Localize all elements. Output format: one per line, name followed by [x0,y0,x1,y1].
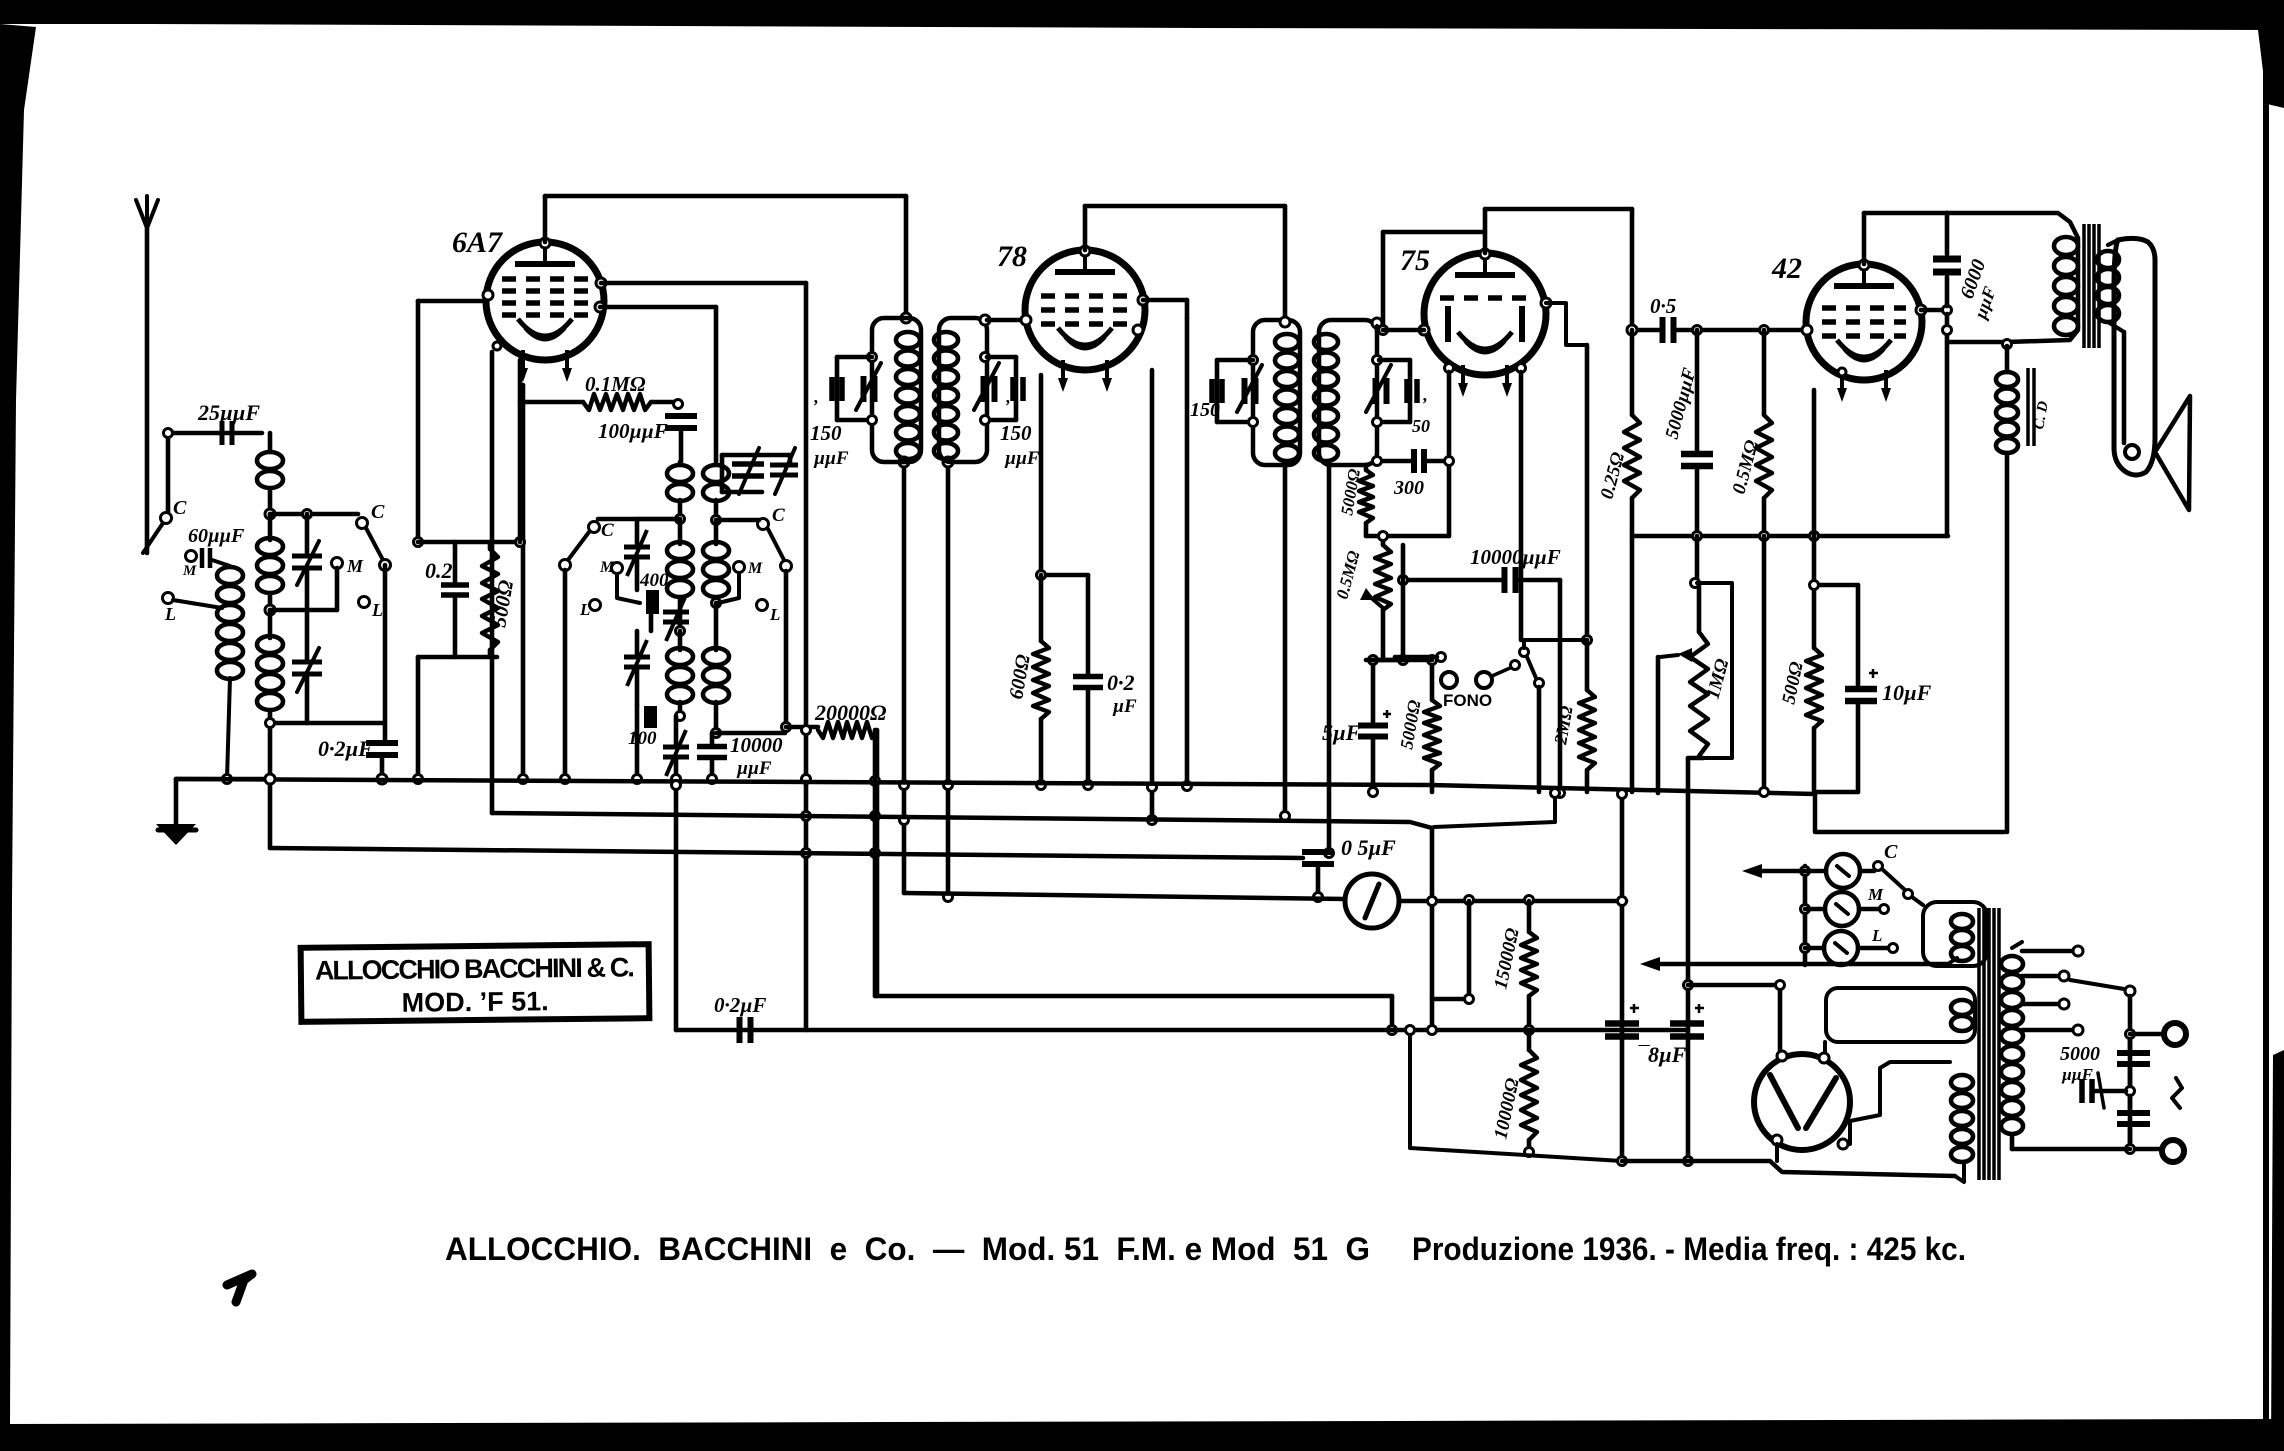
svg-text:60µµF: 60µµF [188,525,245,547]
IF1 secondary frame [939,318,987,462]
capacitor line filter a [2117,1053,2150,1064]
power transformer core [1979,908,1999,1180]
svg-text:C: C [601,520,614,541]
wire 78 plate right [1143,298,1187,303]
wire varcap top [305,514,310,556]
wire x1632 below [1630,536,1635,792]
coil L1 bottom [257,636,283,653]
wire M row [270,608,337,613]
switch fan right C [758,519,769,530]
svg-text:10000: 10000 [730,733,783,757]
capacitor 25uuF [222,421,232,445]
wire 78 top to IF2 [1083,206,1088,250]
wire x1417 drop to rect [1410,1030,1622,1161]
page number 7 [227,1274,252,1302]
IF2 primary coil [1275,334,1299,350]
svg-text:FONO: FONO [1443,691,1492,710]
potentiometer 1M [1697,583,1732,758]
pilot lamp L [1824,931,1858,965]
capacitor 300 [1414,449,1424,473]
wire 42 top [1862,213,1867,264]
wire fan left pole [563,570,568,779]
svg-text:42: 42 [1771,252,1802,285]
antenna [136,200,147,228]
wire drop x948 IF1 sec [946,466,951,897]
wire block top [418,540,520,545]
wire drop x806 [804,726,809,1030]
svg-text:0.2: 0.2 [425,558,453,583]
contact L2 [163,593,174,604]
switch contact M [332,558,343,569]
resistor 10000ohm [1521,1050,1537,1140]
switch contact L [359,597,370,608]
wire padder [305,610,310,662]
resistor 5000ohm bias [1424,700,1440,770]
antenna switch contact C [161,513,172,524]
wire drop x904 IF1 pri [902,466,907,893]
bus wire B4b [1399,899,1626,904]
wire 78 g drop x1152 [1150,370,1155,820]
terminal top [2130,1032,2162,1037]
wire 75 top left [1383,230,1485,235]
tube 78 [1025,250,1145,370]
wire bottom long [1622,1161,1955,1176]
coil osc B mid [703,542,729,559]
potentiometer 0.5M [1375,545,1391,610]
svg-text:100: 100 [628,728,657,749]
junction [901,313,911,323]
junction IF1 sec top [980,315,990,325]
svg-text:Produzione 1936. - Media freq.: Produzione 1936. - Media freq. : 425 kc. [1412,1231,1966,1267]
junction [303,510,312,519]
svg-text:20000Ω: 20000Ω [814,700,887,725]
wire switch pole down [383,565,388,743]
output transformer core [2084,224,2099,348]
switch arm mains [1882,869,1905,890]
resistor 500ohm 42 [1806,648,1822,728]
svg-text:0·2µF: 0·2µF [714,993,766,1017]
lamp bus vertical [1803,866,1808,965]
svg-text:75: 75 [1400,244,1430,277]
junction IF2 sec top [1372,318,1382,328]
capacitor 10000uuF osc [697,747,727,758]
svg-text:’: ’ [1004,396,1010,416]
terminal bottom [2130,1147,2160,1152]
svg-text:C: C [173,497,187,519]
switch arm [366,528,383,560]
IF1 sec trimmer [981,353,990,362]
svg-text:150: 150 [1000,421,1032,445]
svg-text:M: M [346,556,364,576]
coil osc A top [678,462,683,465]
svg-text:’: ’ [1421,394,1427,414]
resistor 20000ohm [818,722,877,738]
capacitor 0.5uF [1302,852,1334,864]
tube 75 [1424,253,1546,375]
wire fan right pole [784,571,789,727]
svg-text:ALLOCCHIO. BACCHINI e Co.: ALLOCCHIO. BACCHINI e Co. — Mod. 51 F.M.… [445,1231,1370,1267]
wire x1697 pot feed [1695,536,1700,583]
wire tap down [2128,996,2133,1149]
svg-text:µµF: µµF [2061,1065,2094,1084]
scan border right top corner [2254,0,2284,108]
wire 78 plate drop x1187 [1185,318,1190,786]
resistor 15000ohm [1521,932,1537,996]
wire 42 plate [1916,305,1926,315]
secondary taps [2022,949,2072,954]
meter lamp [1345,874,1399,928]
svg-text:L: L [371,600,383,620]
coil L1 mid [257,538,283,555]
junction top [1859,260,1869,270]
ground bus [176,777,270,782]
svg-text:300: 300 [1393,477,1424,499]
junction IF2 pri top [1280,317,1290,327]
output transformer loop [1947,213,2078,342]
svg-text:µµF: µµF [1004,448,1040,469]
junction [265,509,275,519]
svg-text:150: 150 [1190,399,1220,421]
svg-text:L: L [1871,926,1882,945]
coil antenna primary [212,560,230,566]
maker label box [301,944,650,1022]
wire 6A7 grid1 row [596,278,606,288]
wire varcap bottom [305,568,310,610]
capacitor 100 blob [644,706,657,728]
svg-text:ALLOCCHIO BACCHINI & C.: ALLOCCHIO BACCHINI & C. [315,952,635,985]
svg-text:µµF: µµF [736,758,772,779]
trimmer 5000uuF mains [2095,1089,2126,1094]
capacitor line filter b [2117,1113,2150,1124]
coil osc A bottom [667,648,693,665]
svg-text:50: 50 [1412,416,1430,436]
svg-text:78: 78 [997,240,1027,273]
coil L1 antenna tuning top [268,433,273,452]
svg-text:10µF: 10µF [1882,680,1932,705]
switch fan left L [590,600,601,611]
rectifier tube [1823,1042,1827,1056]
wire 6A7 top to IF1 [543,196,548,242]
trimmer padder osc [663,747,689,757]
trimmer 400 col [624,547,650,557]
wire 75 top right [1483,209,1488,253]
bus y536 [1632,534,1948,539]
resistor 600ohm [1033,641,1049,719]
svg-text:µF: µF [1112,696,1137,717]
wire 75 plate chain [1541,298,1551,308]
capacitor 5uF [1358,726,1388,737]
resistor 2M [1579,690,1595,770]
IF2 secondary frame [1319,320,1377,465]
wire 42 cathode [1812,390,1817,536]
svg-text:0.1MΩ: 0.1MΩ [585,372,646,396]
transformer primary bottom [1951,1075,1973,1090]
wire 42 grid [1802,325,1812,335]
svg-text:L: L [164,604,176,624]
svg-text:10000µµF: 10000µµF [1470,545,1561,569]
bus wire B2 [492,813,1432,828]
capacitor 8uF a [1605,1024,1639,1037]
wire 25uuF feed [166,433,171,512]
wire IF2 sec bottom drop [1327,465,1332,853]
junction top [1480,249,1490,259]
speaker cone [2155,396,2190,510]
scan border top [0,0,2284,30]
capacitor 5000uuF [1681,454,1713,466]
svg-text:0 5µF: 0 5µF [1341,835,1396,860]
svg-text:M: M [182,563,197,579]
svg-text:L: L [769,605,780,624]
IF2 secondary coil [1314,334,1338,350]
wire rect bottom pins [1838,1139,1848,1149]
IF2 primary frame [1253,320,1300,465]
capacitor 60uuF [186,551,197,562]
svg-text:C: C [371,501,385,523]
scan border bottom [0,1419,2284,1451]
bus wire B1 end [1815,794,2004,832]
wire 75 grid left [1419,325,1429,335]
bus wire B3 [270,848,1303,858]
switch contact C [357,518,368,529]
scan border right bottom [2271,1050,2284,1451]
capacitor 0.5 [1663,317,1674,343]
capacitor 0.2uF line [740,1017,751,1043]
wire 42 plate down [1945,314,1950,536]
wire 6A7 grid2 row [595,302,605,312]
junction top cap [540,238,550,248]
wire x1688 long [1686,758,1691,1161]
svg-text:400: 400 [639,570,669,591]
resistor 500ohm [482,549,498,650]
variable capacitor osc pair [732,464,764,476]
arrow wire top [1757,869,1805,874]
output transformer primary coil [2054,237,2078,255]
bus wire B1 [176,779,1815,794]
svg-text:C: C [772,505,785,526]
wire 78 cathode drop [1039,375,1044,575]
svg-text:5µF: 5µF [1322,720,1361,745]
capacitor 0.2uF antenna [366,743,398,755]
resistor 0.25M [1624,415,1640,498]
resistor 0.1M [520,400,583,405]
svg-text:0·2µF: 0·2µF [318,736,373,761]
junction top [1080,246,1090,256]
FONO switch [1520,648,1529,657]
junction [265,605,275,615]
bus wire B6 [676,1028,1688,1033]
IF1 primary coil [896,332,920,348]
IF1 secondary coil [934,332,958,348]
wire secondary bottom [2012,1147,2130,1152]
field coil [2003,340,2012,349]
wire drop x875 crossings [871,777,880,786]
capacitor 100uuF [665,416,697,428]
svg-text:¯8µF: ¯8µF [1637,1042,1687,1067]
capacitor 10000uuF AF [1505,567,1516,593]
pilot lamp C [1826,854,1860,888]
coil osc A mid [667,542,693,559]
output transformer secondary coil [2097,251,2119,268]
wire bias row [1366,534,1449,539]
wire x1626 long [1620,794,1625,1161]
wire C row [270,512,358,517]
switch fan right L [757,600,768,611]
junction [164,429,173,438]
wire 6A7 left rim [483,290,493,300]
svg-text:’: ’ [812,396,818,416]
capacitor 10uF [1845,689,1877,701]
variable capacitor tuning [292,556,322,568]
wire IF2 pri bottom drop [1283,465,1288,816]
svg-text:5000: 5000 [2060,1043,2100,1065]
scan border left wedge [0,24,36,1426]
bus wire B4 [904,893,1345,899]
wire 78 right rim [1138,295,1148,305]
tap switch arm [2070,980,2124,989]
trimmer low [624,657,650,667]
resistor 5000ohm 75grid [1359,470,1373,523]
tube 6A7 [486,242,604,360]
wire 6A7 cathode pin drop [490,352,495,813]
svg-text:µµF: µµF [813,448,849,469]
wire x1469 drop [1467,901,1472,999]
svg-text:C: C [1884,841,1898,863]
wire x1560 drop [1558,580,1563,793]
transformer primary mid [1951,1000,1973,1015]
IF1 primary frame [872,318,921,462]
wire coil bottom row [270,721,382,726]
svg-text:100µµF: 100µµF [598,419,668,443]
wire x1764 below [1762,536,1767,792]
svg-text:MOD. ’F 51.: MOD. ’F 51. [402,986,549,1018]
wire pot arm [1656,657,1661,793]
wire 20000 right [875,730,880,996]
capacitor 6000uuF [1933,259,1961,272]
wire 6A7 left pin drop [521,385,526,779]
scan border right line [2263,26,2269,1426]
transformer primary top [1923,902,1987,966]
svg-text:150: 150 [810,421,842,445]
svg-text:L: L [579,600,590,619]
switch fan left C [589,522,600,533]
svg-text:M: M [1867,885,1884,904]
fuse S [2172,1078,2182,1108]
coil osc B bottom [703,648,729,665]
coil osc B top [703,465,729,482]
transformer secondary [2001,956,2023,972]
svg-text:0·5: 0·5 [1650,294,1676,318]
capacitor 0.2uF 78 [1073,677,1103,688]
wire rect top left [1778,985,1783,1052]
IF1 trimmer [868,353,877,362]
wire x1432 long drop [1430,828,1435,1030]
arrow wire bottom [1655,962,1948,967]
svg-text:6A7: 6A7 [452,226,503,259]
wire fan right top [716,518,759,523]
IF2 trimmer [1249,356,1258,365]
svg-text:0·2: 0·2 [1107,670,1135,695]
ground [174,779,179,824]
wire 20000 row [716,731,785,736]
wire block bottom [418,655,497,660]
wire 78 left rim [1021,315,1031,325]
tube 42 [1806,264,1922,380]
svg-text:25µµF: 25µµF [197,400,260,425]
junction [1373,457,1382,466]
resistor 0.5M 42 [1756,415,1772,498]
wire fan left top [598,517,680,522]
trimmer mid [663,612,689,622]
switch fan right M [734,562,745,573]
variable capacitor padder [292,662,322,674]
bus wire B2 stub [1434,793,1555,827]
svg-text:M: M [599,559,615,576]
svg-text:M: M [747,560,763,577]
bus wire B5 [875,994,1392,999]
speaker body [2114,238,2155,475]
pilot lamp M [1825,892,1859,926]
wire 75 cathode pins [1445,364,1454,373]
switch fan left M [612,563,623,574]
wire bottom winding return [1955,1165,1964,1182]
IF2 sec trimmer [1373,356,1382,365]
FONO jacks [1441,672,1457,688]
capacitor 8uF b [1670,1024,1704,1037]
